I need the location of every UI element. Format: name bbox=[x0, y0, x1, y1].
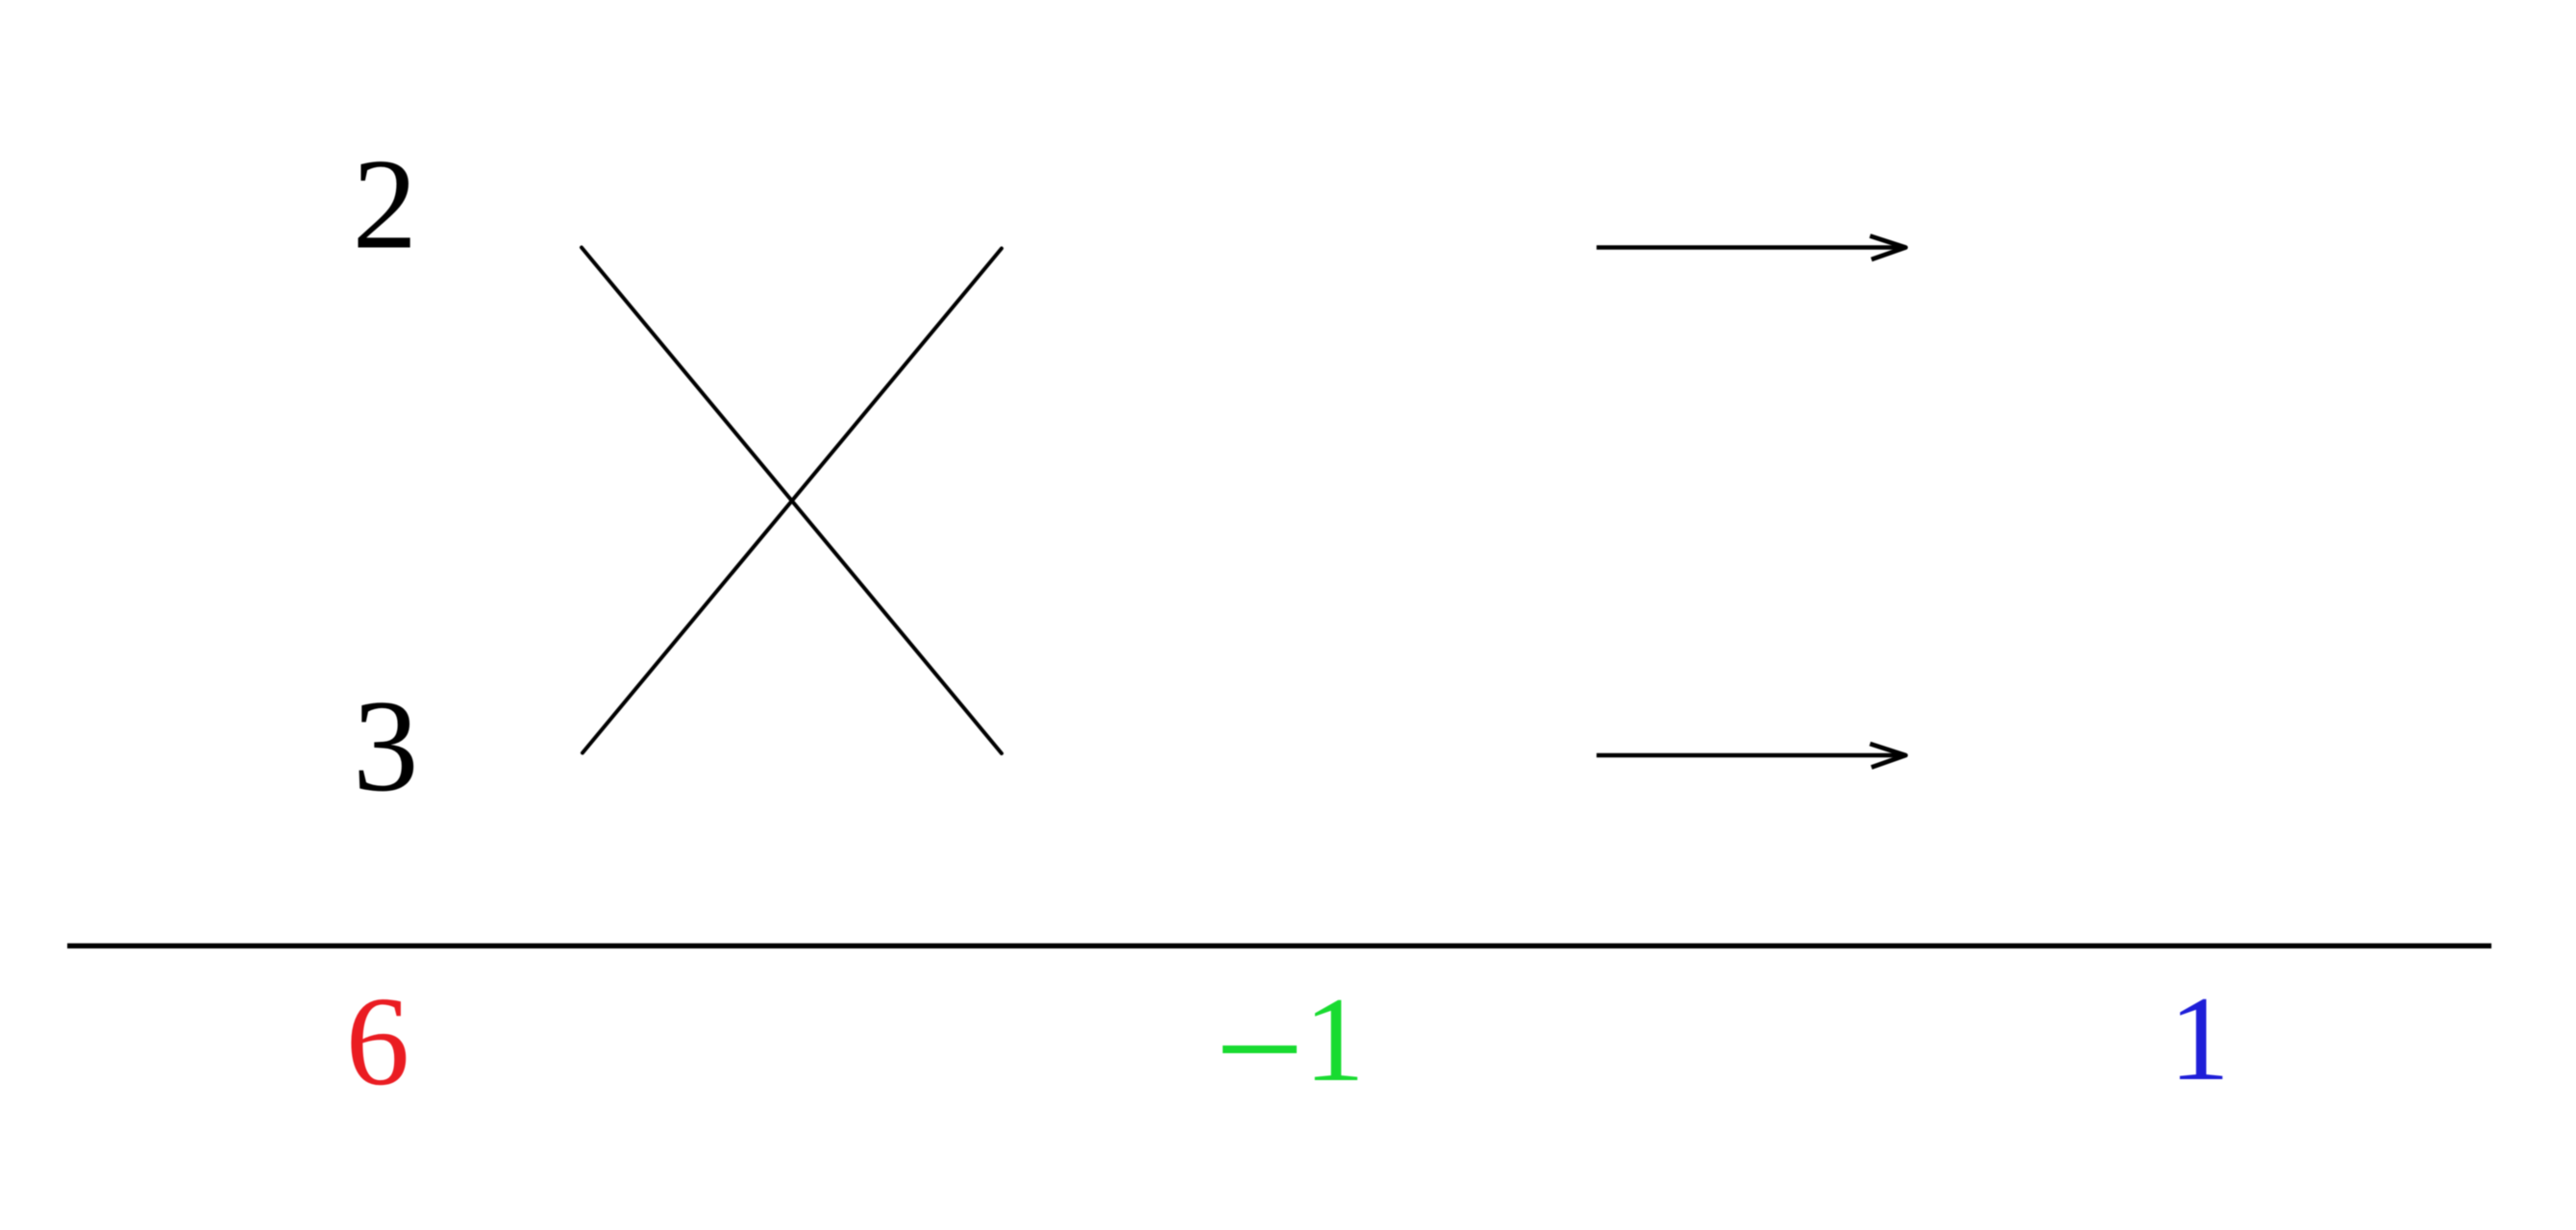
top arrow head bbox=[1870, 236, 1906, 260]
svg-text:1: 1 bbox=[2169, 972, 2230, 1106]
svg-text:1: 1 bbox=[1304, 973, 1365, 1107]
svg-text:6: 6 bbox=[346, 970, 410, 1112]
svg-text:3: 3 bbox=[353, 673, 419, 819]
svg-text:2: 2 bbox=[353, 134, 418, 277]
green minus sign of -1 bbox=[1223, 1045, 1297, 1053]
cross line A (top-left to bottom-right) bbox=[582, 248, 1002, 754]
top arrow shaft bbox=[1597, 245, 1904, 249]
bottom arrow shaft bbox=[1597, 753, 1904, 757]
cross line B (top-right to bottom-left) bbox=[582, 249, 1002, 753]
fraction bar (long horizontal rule) bbox=[67, 944, 2491, 948]
bottom arrow head bbox=[1870, 744, 1906, 768]
